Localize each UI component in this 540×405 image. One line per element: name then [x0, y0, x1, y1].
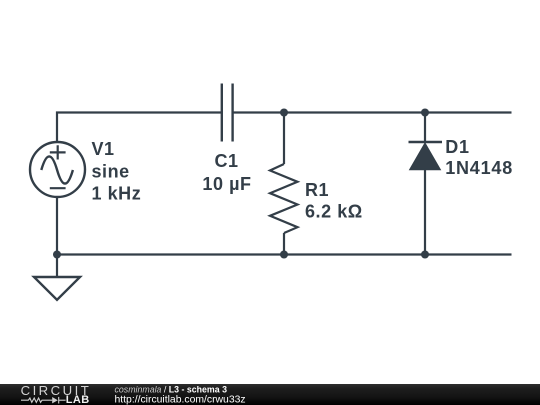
- svg-text:cosminmala / L3 - schema 3: cosminmala / L3 - schema 3: [115, 384, 228, 394]
- junction D1 top: [421, 109, 429, 117]
- svg-text:LAB: LAB: [66, 394, 90, 405]
- svg-text:http://circuitlab.com/crwu33z: http://circuitlab.com/crwu33z: [115, 394, 246, 405]
- svg-text:C1: C1: [214, 151, 238, 171]
- svg-text:1 kHz: 1 kHz: [92, 184, 142, 204]
- footer bar: [0, 384, 540, 405]
- wire R1 top lead: [283, 113, 285, 165]
- svg-text:V1: V1: [92, 139, 115, 159]
- junction D1 bottom: [421, 251, 429, 259]
- wire C1 right plate to top-right end: [233, 111, 512, 113]
- resistor R1: [270, 164, 298, 233]
- svg-text:sine: sine: [92, 162, 130, 182]
- capacitor C1: [222, 84, 233, 142]
- diode D1: [409, 142, 443, 170]
- wire R1 bottom lead: [283, 233, 285, 255]
- svg-text:R1: R1: [305, 180, 329, 200]
- wire D1 top lead: [424, 113, 426, 144]
- wire D1 bottom lead: [424, 170, 426, 255]
- svg-text:6.2 kΩ: 6.2 kΩ: [305, 202, 363, 222]
- ground: [34, 277, 80, 300]
- CircuitLab logo: [21, 383, 92, 405]
- svg-text:1N4148: 1N4148: [445, 158, 513, 178]
- wire bottom rail: [57, 253, 512, 255]
- wire ground stub: [56, 255, 58, 278]
- svg-text:10 µF: 10 µF: [202, 174, 251, 194]
- junction ground node: [53, 251, 61, 259]
- attribution text: [115, 384, 246, 405]
- wire V1 bottom to ground node: [56, 197, 58, 255]
- wire V1 top to C1 left plate: [57, 113, 222, 143]
- svg-text:D1: D1: [445, 137, 470, 157]
- voltage source V1: [30, 142, 85, 197]
- junction R1 bottom: [280, 251, 288, 259]
- junction C1-R1 top: [280, 109, 288, 117]
